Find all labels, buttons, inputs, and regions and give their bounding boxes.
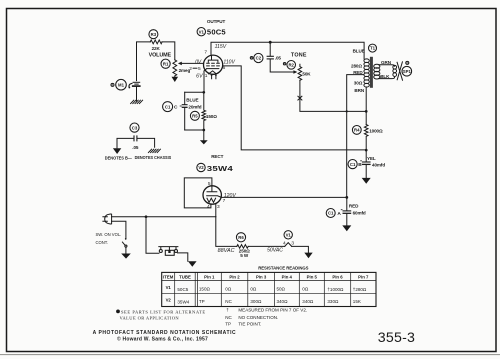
pin label 2-5 xyxy=(189,66,201,72)
value label 50K xyxy=(302,71,311,76)
resistance readings table grid xyxy=(162,272,376,306)
value label 22K xyxy=(152,46,161,51)
wire AC line bottom to switch xyxy=(112,221,126,238)
note SEE PARTS LIST xyxy=(116,309,206,320)
svg-text:C1: C1 xyxy=(328,211,334,216)
svg-text:V2: V2 xyxy=(198,165,204,170)
wire to interlock left xyxy=(146,217,159,254)
value label 30 ohm xyxy=(354,80,363,85)
svg-text:3: 3 xyxy=(291,241,294,247)
svg-text:DENOTES CHASSIS: DENOTES CHASSIS xyxy=(135,155,172,160)
svg-text:60mfd: 60mfd xyxy=(353,210,366,215)
speaker SP1 designator with alternate-part dot xyxy=(402,61,412,76)
value label .05 (C3) xyxy=(132,145,139,150)
svg-text:3: 3 xyxy=(217,204,220,210)
label YEL (C1-B) xyxy=(367,156,376,161)
svg-text:Pin 5: Pin 5 xyxy=(307,274,318,279)
voltage label 50VAC xyxy=(267,247,283,253)
V1 heater xyxy=(209,71,217,74)
wire heater string down from AC corner to R6 xyxy=(216,217,237,247)
svg-text:2: 2 xyxy=(189,66,192,72)
svg-text:1: 1 xyxy=(205,73,208,79)
svg-text:.05: .05 xyxy=(132,145,139,150)
pin number 7 (V2 cathode) xyxy=(223,198,226,204)
svg-text:TUBE: TUBE xyxy=(179,274,191,279)
svg-text:A: A xyxy=(337,211,341,217)
footer A PHOTOFACT STANDARD NOTATION SCHEMATIC xyxy=(93,330,237,336)
node: junction dot C2 tap on plate bus xyxy=(269,41,272,44)
B- arrow below C1-B xyxy=(362,178,371,184)
B- arrow below switch xyxy=(121,254,131,259)
wire V1 cathode pin 1 down to bias network xyxy=(185,71,204,92)
svg-text:110V: 110V xyxy=(223,59,235,65)
pin number 7 (V1 plate) xyxy=(204,50,207,56)
svg-text:BRN: BRN xyxy=(354,88,364,93)
voltage label 88VAC xyxy=(218,248,235,254)
resistor R6 designator xyxy=(236,233,245,242)
wire GRN secondary to voice coil xyxy=(379,65,395,66)
svg-text:340Ω: 340Ω xyxy=(302,299,314,304)
transformer T1 designator xyxy=(369,44,377,52)
resistor R3 designator xyxy=(149,30,158,39)
pin number 3 (V1 heater) xyxy=(291,241,294,247)
svg-text:TIE POINT.: TIE POINT. xyxy=(238,321,261,326)
svg-text:15K: 15K xyxy=(353,299,361,304)
crystal pickup cartridge M1 xyxy=(129,82,141,88)
svg-text:0Ω: 0Ω xyxy=(225,286,232,291)
label SW. ON VOL. CONT. xyxy=(96,232,122,245)
svg-text:150Ω: 150Ω xyxy=(199,286,211,291)
node junction dot pin1/bias top xyxy=(202,91,205,94)
table row V2 35W4 xyxy=(166,298,361,305)
electrolytic capacitor C1-B 40mfd xyxy=(360,150,370,178)
svg-text:GRN: GRN xyxy=(381,60,392,65)
node junction dot BRN / R4 / tone return xyxy=(365,110,368,113)
svg-text:Pin 7: Pin 7 xyxy=(358,274,369,279)
svg-text:Pin 1: Pin 1 xyxy=(204,274,215,279)
svg-text:T1: T1 xyxy=(370,46,376,51)
V2 heater filament xyxy=(207,198,216,202)
capacitor C2 designator with alternate-part dot xyxy=(250,53,263,62)
wire B+ line V2 cathode to C1-A junction xyxy=(221,196,347,198)
svg-text:ITEM: ITEM xyxy=(163,274,174,279)
cathode resistor R5 150 ohm zigzag xyxy=(202,92,206,130)
pin number 1 (V1 cathode) xyxy=(205,73,208,79)
svg-text:Pin 4: Pin 4 xyxy=(282,274,293,279)
svg-text:C2: C2 xyxy=(256,56,262,61)
svg-text:7: 7 xyxy=(204,50,207,56)
svg-text:35W4: 35W4 xyxy=(177,299,189,304)
svg-text:RED: RED xyxy=(349,204,359,209)
svg-text:R1: R1 xyxy=(163,61,169,66)
svg-text:NO CONNECTION.: NO CONNECTION. xyxy=(238,315,278,320)
svg-text:M1: M1 xyxy=(118,82,125,87)
voltage label 120V xyxy=(224,193,237,199)
V2 plate element xyxy=(207,186,217,192)
svg-text:Pin 3: Pin 3 xyxy=(256,274,267,279)
speaker voice coil xyxy=(393,65,397,76)
svg-text:NC: NC xyxy=(225,315,232,320)
svg-text:BLUE: BLUE xyxy=(186,98,198,103)
svg-text:5: 5 xyxy=(198,66,201,72)
value label 40mfd xyxy=(372,162,385,167)
svg-text:50Ω: 50Ω xyxy=(277,286,286,291)
value label 1000 ohm xyxy=(369,128,383,133)
svg-text:C1: C1 xyxy=(350,162,356,167)
table title RESISTANCE READINGS xyxy=(258,265,308,270)
svg-text:VALUE OR APPLICATION: VALUE OR APPLICATION xyxy=(120,315,180,320)
value label 60mfd xyxy=(353,210,366,215)
svg-text:SEE PARTS LIST FOR ALTERNATE: SEE PARTS LIST FOR ALTERNATE xyxy=(121,309,206,314)
V1 control grid (dashed) xyxy=(207,65,220,67)
B- arrow below C1-A xyxy=(342,225,351,231)
coupling capacitor C2 .05 xyxy=(267,42,294,72)
svg-text:R6: R6 xyxy=(238,235,244,240)
legend B- arrow xyxy=(113,148,121,154)
svg-text:120V: 120V xyxy=(224,193,237,199)
wire interlock right to B- xyxy=(178,253,188,261)
svg-text:SW. ON VOL.: SW. ON VOL. xyxy=(96,232,122,237)
svg-text:NC: NC xyxy=(225,299,232,304)
svg-text:5: 5 xyxy=(208,181,211,187)
label RED (T1 B+ tap) xyxy=(353,70,363,75)
svg-text:MEASURED FROM PIN 7 OF V2.: MEASURED FROM PIN 7 OF V2. xyxy=(238,308,307,313)
tube designator V2 xyxy=(197,163,205,171)
wire R3 left end down to cartridge M1 xyxy=(137,42,151,81)
svg-text:330Ω: 330Ω xyxy=(327,299,339,304)
pin number 5 (V2 plate) xyxy=(208,181,211,187)
svg-text:†280Ω: †280Ω xyxy=(353,287,367,292)
svg-text:TP: TP xyxy=(199,299,205,304)
capacitor C1 section A designator xyxy=(326,209,341,218)
label BRN (T1 primary bottom) xyxy=(354,88,364,93)
transformer T1 core xyxy=(370,57,373,88)
legend chassis ground symbol xyxy=(148,149,160,152)
volume control R1 2meg zigzag xyxy=(173,60,177,76)
chassis ground below M1 xyxy=(131,100,143,103)
footer copyright Howard W. Sams xyxy=(117,336,208,343)
screen resistor R4 1000 ohm zigzag xyxy=(364,125,368,150)
svg-text:V1: V1 xyxy=(166,285,172,290)
wire RED tap left and down to B+ line xyxy=(347,75,364,198)
svg-text:R3: R3 xyxy=(151,32,157,37)
wire R6 to V1 heater hump xyxy=(248,245,285,247)
label RED (C1-A) xyxy=(349,204,359,209)
svg-text:V1: V1 xyxy=(199,29,205,34)
wire V2 pin 3 down to AC line xyxy=(215,204,217,217)
svg-text:1000Ω: 1000Ω xyxy=(369,128,383,133)
table footnote TP xyxy=(225,321,261,326)
svg-text:20mfd: 20mfd xyxy=(188,105,201,110)
wiper arrow into tone control xyxy=(293,70,297,74)
svg-text:RESISTANCE READINGS: RESISTANCE READINGS xyxy=(258,265,308,270)
svg-text:50C5: 50C5 xyxy=(207,27,227,36)
tube type 35W4 xyxy=(207,164,234,173)
B- arrow at heater string end xyxy=(304,253,312,259)
control R2 designator with alternate-part dot xyxy=(283,61,295,70)
switch SW on volume control xyxy=(122,238,127,253)
control R1 designator xyxy=(161,59,170,68)
svg-text:SP1: SP1 xyxy=(403,69,412,74)
svg-text:A PHOTOFACT STANDARD NOTATION: A PHOTOFACT STANDARD NOTATION SCHEMATIC xyxy=(93,330,237,336)
voltage label 110V xyxy=(223,59,235,65)
speaker cone lines xyxy=(397,62,402,80)
svg-text:340Ω: 340Ω xyxy=(277,299,289,304)
label BLK xyxy=(380,74,390,79)
svg-text:TP: TP xyxy=(225,321,231,326)
legend capacitor C3 designator xyxy=(130,123,139,132)
V1 screen grid (dashed) xyxy=(207,62,220,64)
label GRN xyxy=(381,60,392,65)
svg-text:50K: 50K xyxy=(302,71,311,76)
heater dropping resistor R6 250 ohm zigzag xyxy=(237,245,248,249)
wire cartridge to chassis ground xyxy=(136,87,138,101)
svg-text:R2: R2 xyxy=(288,63,294,68)
tone control R2 50K zigzag xyxy=(298,64,302,80)
svg-text:RECT: RECT xyxy=(211,154,223,159)
wire volume wiper to V1 grid with arrow xyxy=(178,62,204,66)
wire V1 screen pin 6 right and down to R4/C1-B junction xyxy=(223,66,367,150)
svg-text:R5: R5 xyxy=(192,113,198,118)
svg-text:7: 7 xyxy=(223,198,226,204)
svg-text:YEL: YEL xyxy=(367,156,376,161)
table footnote dagger xyxy=(226,308,307,313)
svg-text:4: 4 xyxy=(207,204,210,210)
svg-text:VOLUME: VOLUME xyxy=(149,53,172,59)
transformer T1 primary winding xyxy=(364,59,369,87)
pin number 4 (V2 heater) xyxy=(207,204,210,210)
resistor R4 designator xyxy=(352,125,361,134)
value label 20mfd xyxy=(188,105,201,110)
svg-text:300Ω: 300Ω xyxy=(250,299,262,304)
legend capacitor C3 .05 xyxy=(117,135,155,148)
svg-text:V2: V2 xyxy=(166,298,172,303)
svg-text:22K: 22K xyxy=(152,46,161,51)
AC line plug xyxy=(103,214,112,224)
value label 250 ohm xyxy=(239,248,250,253)
pickup designator M1 with alternate-part dot xyxy=(111,79,126,90)
wire bias network bottom rail xyxy=(185,130,204,140)
label BLUE (T1 primary top) xyxy=(353,48,365,53)
tube V1 envelope xyxy=(204,55,223,74)
value label 280 ohm xyxy=(351,64,362,69)
label BLUE (C1-C) xyxy=(186,98,198,103)
legend text DENOTES CHASSIS xyxy=(135,155,172,160)
table footnote NC xyxy=(225,315,278,320)
node junction dot interlock tap xyxy=(145,215,148,218)
table row V1 50C5 xyxy=(166,285,367,292)
table header row xyxy=(163,274,369,279)
V1 heater pins hump xyxy=(285,243,292,247)
svg-text:280Ω: 280Ω xyxy=(351,64,362,69)
pin number 4 (V1 heater) xyxy=(283,241,286,247)
capacitor C1 section C designator xyxy=(163,102,178,112)
wire tone control bottom to BRN junction xyxy=(300,80,366,111)
voltage label 115V xyxy=(215,44,227,50)
capacitor C1 section B designator xyxy=(348,160,362,169)
wire AC line top to heater string corner xyxy=(112,216,216,218)
tube type 50C5 xyxy=(207,27,227,36)
label RECT xyxy=(211,154,223,159)
value label 2meg xyxy=(179,68,191,73)
label VOLUME xyxy=(149,53,172,59)
legend text DENOTES B- xyxy=(105,156,133,161)
tie point X on tone return wire xyxy=(298,96,302,100)
svg-text:C: C xyxy=(174,105,178,111)
svg-text:C1: C1 xyxy=(165,104,171,109)
B- arrow below volume control xyxy=(172,76,179,82)
svg-text:50C5: 50C5 xyxy=(177,287,188,292)
svg-text:4: 4 xyxy=(283,241,286,247)
svg-text:© Howard W. Sams & Co., Inc. 1: © Howard W. Sams & Co., Inc. 1957 xyxy=(117,336,208,343)
B- arrow below interlock xyxy=(188,261,197,267)
V1 heater pin arrows xyxy=(211,74,217,79)
node junction dot bias bottom xyxy=(202,129,205,132)
svg-text:CONT.: CONT. xyxy=(96,240,109,245)
svg-text:0Ω: 0Ω xyxy=(250,286,257,291)
label TONE xyxy=(291,53,307,59)
svg-text:35W4: 35W4 xyxy=(207,164,234,173)
svg-text:0V: 0V xyxy=(195,59,202,65)
V1 cathode xyxy=(204,69,219,71)
svg-text:6V: 6V xyxy=(196,73,203,79)
svg-text:40mfd: 40mfd xyxy=(372,162,385,167)
value label 5 W xyxy=(240,253,249,258)
value label .05 (C2) xyxy=(275,56,282,61)
svg-text:R4: R4 xyxy=(354,128,360,133)
svg-text:BLUE: BLUE xyxy=(353,48,365,53)
svg-text:115V: 115V xyxy=(215,44,227,50)
wire R3 right end to volume control top xyxy=(162,42,175,60)
wire heater string end to B- xyxy=(292,246,309,252)
svg-text:88VAC: 88VAC xyxy=(218,248,235,254)
svg-text:5 W: 5 W xyxy=(240,253,249,258)
tube designator V1 xyxy=(197,28,205,36)
V1 plate element xyxy=(208,55,218,62)
pin number 6 (V1 screen) xyxy=(223,65,226,71)
B- arrow below bias network xyxy=(200,140,208,144)
svg-text:DENOTES B—: DENOTES B— xyxy=(105,156,133,161)
resistor R5 designator xyxy=(190,111,199,120)
resistor R3 22K zigzag xyxy=(150,40,162,44)
pin number 3 (V2 heater) xyxy=(217,204,220,210)
wire V2 pin 5 to pin 4 loop xyxy=(184,178,212,208)
tube V2 envelope xyxy=(203,186,221,204)
svg-text:150Ω: 150Ω xyxy=(206,114,217,119)
svg-text:B: B xyxy=(358,162,362,168)
svg-text:V1: V1 xyxy=(286,232,292,237)
svg-text:355-3: 355-3 xyxy=(378,330,415,346)
svg-text:†1000Ω: †1000Ω xyxy=(327,287,344,292)
electrolytic capacitor C1-C 20mfd xyxy=(180,92,188,130)
svg-text:Pin 6: Pin 6 xyxy=(332,274,343,279)
electrolytic capacitor C1-A 60mfd xyxy=(341,197,351,225)
wire BRN down to junction xyxy=(365,87,367,125)
node junction dot B+ / RED / C1-A xyxy=(345,196,348,199)
svg-text:30Ω: 30Ω xyxy=(354,80,363,85)
voltage label 6V xyxy=(196,73,203,79)
svg-text:C3: C3 xyxy=(132,125,138,130)
node small dot at RED line crossing xyxy=(346,110,348,112)
node junction dot screen line / R4 / C1-B xyxy=(365,149,368,152)
wire plate bus: V1 pin 7 up to top rail, right to T1 primary top xyxy=(211,42,364,59)
svg-text:0Ω: 0Ω xyxy=(302,286,309,291)
V2 cathode xyxy=(207,196,222,198)
label OUTPUT xyxy=(207,19,226,24)
value label 150 ohm xyxy=(206,114,217,119)
svg-text:.05: .05 xyxy=(275,56,282,61)
svg-text:OUTPUT: OUTPUT xyxy=(207,19,226,24)
svg-text:Pin 2: Pin 2 xyxy=(229,274,240,279)
interlock connector xyxy=(159,247,178,256)
V1 heater designator circle xyxy=(284,231,292,239)
wire BLK secondary to voice coil xyxy=(379,77,395,78)
transformer T1 secondary winding xyxy=(374,64,380,79)
sheet number 355-3 xyxy=(378,330,415,346)
voltage label 0V xyxy=(195,59,202,65)
svg-text:50VAC: 50VAC xyxy=(267,247,283,253)
svg-text:TONE: TONE xyxy=(291,53,307,59)
